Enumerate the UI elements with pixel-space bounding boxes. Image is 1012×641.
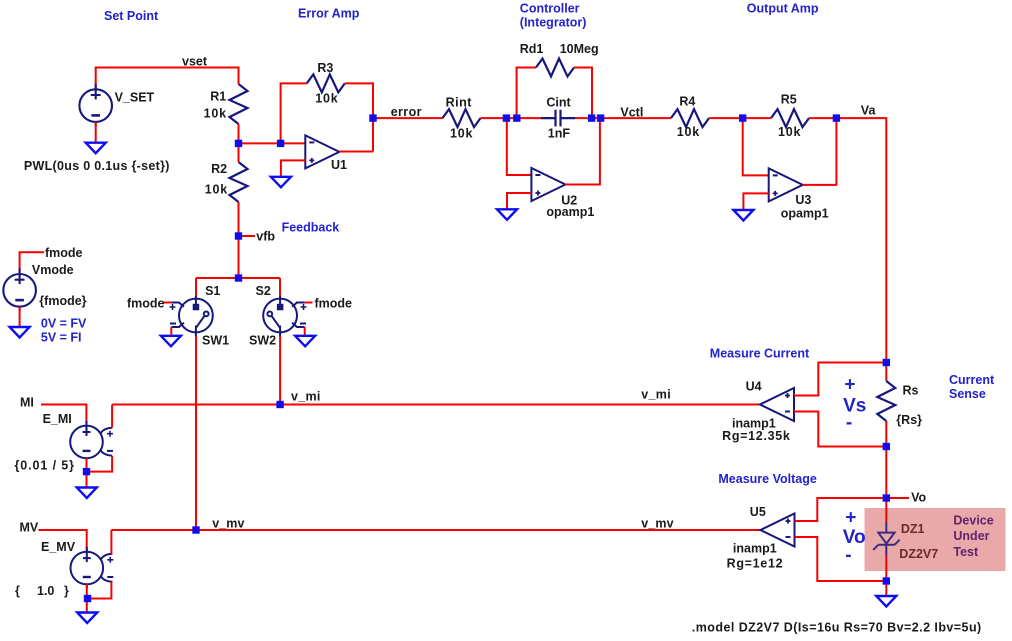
ground (U2 plus input) (497, 209, 517, 220)
wire Rd1 loop (517, 68, 592, 119)
svg-text:Rg=12.35k: Rg=12.35k (722, 429, 791, 443)
svg-text:Vmode: Vmode (32, 263, 74, 277)
wire vset net (V_SET top to R1 top) (96, 68, 239, 91)
wire U1 plus input to ground (281, 160, 305, 176)
device under test highlight box (865, 508, 1006, 571)
wire E_MI minus to node (86, 458, 88, 487)
svg-text:opamp1: opamp1 (781, 206, 829, 220)
wire U5 plus loop to Vo node (795, 498, 887, 521)
svg-text:Va: Va (861, 104, 877, 118)
wire Cint right to Vctl node (575, 117, 671, 119)
dependent source E_MI (70, 421, 113, 463)
svg-text:+: + (845, 507, 856, 528)
wire v_mi net (112, 404, 760, 406)
svg-text:1nF: 1nF (548, 127, 571, 141)
svg-text:S1: S1 (205, 284, 220, 298)
svg-text:Rd1: Rd1 (520, 42, 544, 56)
svg-text:Set Point: Set Point (104, 9, 159, 23)
svg-text:-: - (846, 413, 852, 434)
wire U4 plus loop to Rs top (794, 363, 886, 396)
svg-text:{Rs}: {Rs} (896, 413, 922, 427)
svg-text:Measure Current: Measure Current (710, 346, 810, 360)
svg-text:R5: R5 (781, 93, 797, 107)
wire S2 bottom down to v_mi node (279, 336, 281, 405)
svg-text:R3: R3 (317, 61, 333, 75)
wire Rint to integrator input node (481, 117, 542, 119)
dependent source E_MV (71, 547, 114, 589)
svg-text:MI: MI (20, 396, 34, 410)
ground (below E_MV) (77, 613, 97, 624)
node E_MI minus (83, 468, 90, 475)
wire Rs bottom to Vo node (885, 447, 887, 499)
svg-text:v_mi: v_mi (291, 389, 321, 403)
svg-text:fmode: fmode (315, 297, 353, 311)
wire E_MV control minus to node (88, 582, 112, 599)
svg-text:Device: Device (953, 513, 993, 527)
node feedback branch junction (277, 140, 284, 147)
svg-text:{0.01 / 5}: {0.01 / 5} (15, 459, 75, 473)
resistor R5 (771, 109, 809, 127)
svg-text:opamp1: opamp1 (546, 205, 594, 219)
switch S1 (SW1) (170, 296, 213, 337)
svg-text:Current: Current (949, 373, 995, 387)
svg-text:0V = FV: 0V = FV (41, 317, 87, 331)
node v_mv at S1 (192, 526, 199, 533)
wire S1 control minus to ground (170, 327, 172, 336)
svg-text:Vctl: Vctl (620, 105, 643, 119)
wire MI to E_MI plus (41, 405, 86, 426)
wire switch junction to S1 and S2 tops (196, 278, 280, 296)
wire V_SET minus to ground (95, 122, 97, 143)
svg-text:PWL(0us 0 0.1us {-set}): PWL(0us 0 0.1us {-set}) (24, 159, 170, 173)
svg-text:fmode: fmode (45, 246, 83, 260)
svg-text:U1: U1 (331, 158, 347, 172)
svg-text:10k: 10k (205, 183, 228, 197)
svg-text:Under: Under (953, 529, 989, 543)
svg-text:Feedback: Feedback (282, 220, 340, 234)
resistor R1 (230, 84, 248, 124)
ground (U3 plus input) (733, 210, 753, 221)
svg-text:Output Amp: Output Amp (747, 2, 819, 16)
svg-text:vset: vset (182, 54, 208, 68)
svg-text:v_mv: v_mv (641, 516, 673, 530)
svg-text:10Meg: 10Meg (560, 42, 599, 56)
wire R3 feedback branch (node up and across) (281, 83, 307, 143)
svg-text:v_mi: v_mi (641, 387, 671, 401)
wire R1 bottom to divider node (238, 124, 240, 143)
wire Vmode to ground (19, 307, 21, 328)
svg-text:Measure Voltage: Measure Voltage (718, 472, 816, 486)
node integrator input a (503, 114, 510, 121)
svg-text:vfb: vfb (256, 229, 275, 243)
node divider junction (235, 140, 242, 147)
wire R4 to R5 (709, 117, 771, 119)
svg-text:Sense: Sense (949, 387, 986, 401)
node Vo (883, 494, 890, 501)
svg-text:Vo: Vo (911, 490, 926, 504)
ground (S1 control) (161, 336, 181, 347)
svg-text:Test: Test (953, 545, 979, 559)
wire fmode stub to S2 control (305, 302, 313, 304)
svg-text:inamp1: inamp1 (733, 541, 777, 555)
node Rs bottom (883, 443, 890, 450)
node U3 minus junction (739, 114, 746, 121)
wire Rs leads (885, 363, 887, 447)
svg-text:MV: MV (20, 521, 39, 535)
node error (369, 114, 376, 121)
wire vfb stub to label (239, 235, 256, 237)
resistor R4 (671, 109, 709, 127)
ground (S2 control) (295, 336, 315, 347)
node vfb (235, 232, 242, 239)
svg-text:V_SET: V_SET (115, 90, 155, 104)
node v_mi at S2 (276, 401, 283, 408)
inamp U5 (761, 514, 795, 547)
svg-text:R2: R2 (211, 162, 227, 176)
svg-text:fmode: fmode (127, 297, 165, 311)
svg-text:10k: 10k (677, 125, 700, 139)
wire E_MI control plus from v_mi line (111, 405, 113, 428)
node switch junction (235, 274, 242, 281)
wire R2 top lead (238, 143, 240, 162)
node E_MV minus (84, 595, 91, 602)
wire U5 minus loop to DZ bottom (795, 537, 887, 581)
svg-text:Rint: Rint (446, 96, 473, 110)
wire divider node to U1 minus input (239, 142, 306, 144)
ground (U1 plus input) (271, 177, 291, 188)
svg-text:10k: 10k (204, 107, 227, 121)
wire vfb node down to switch junction (238, 236, 240, 278)
svg-text:DZ1: DZ1 (901, 522, 925, 536)
wire E_MV control plus from v_mv line (110, 530, 112, 554)
svg-text:SW2: SW2 (249, 333, 276, 347)
wire fmode stub (Vmode) (20, 252, 45, 274)
svg-text:-: - (845, 545, 851, 566)
resistor R3 (307, 74, 345, 92)
svg-text:Cint: Cint (546, 96, 571, 110)
ground (below E_MI) (77, 488, 97, 499)
ground (below V_SET) (86, 143, 106, 154)
wire E_MI control minus to node (87, 456, 113, 472)
svg-text:.model DZ2V7 D(Is=16u Rs=70 Bv: .model DZ2V7 D(Is=16u Rs=70 Bv=2.2 Ibv=5… (692, 621, 982, 635)
node Va junction (833, 114, 840, 121)
svg-text:+: + (844, 375, 855, 396)
svg-text:U3: U3 (795, 193, 811, 207)
resistor Rint (443, 109, 481, 127)
node Vctl a (588, 114, 595, 121)
wire Vo stub to label (886, 497, 909, 499)
inamp U4 (760, 388, 794, 421)
svg-text:E_MI: E_MI (43, 412, 72, 426)
svg-text:(Integrator): (Integrator) (520, 16, 587, 30)
wire U2 plus input to ground (507, 193, 531, 209)
svg-text:Rs: Rs (903, 383, 919, 397)
wire U2 minus input branch (507, 118, 532, 175)
wire U3 plus input to ground (743, 193, 768, 210)
node integrator input b (513, 114, 520, 121)
wire v_mv net (111, 529, 760, 531)
svg-text:Controller: Controller (520, 2, 580, 16)
svg-text:R4: R4 (679, 94, 695, 108)
wire U3 minus input branch (743, 118, 769, 175)
svg-text:R1: R1 (210, 89, 226, 103)
svg-text:U4: U4 (746, 380, 762, 394)
wire E_MV minus to node and ground (86, 584, 88, 612)
svg-text:error: error (391, 105, 422, 119)
ground (below Vmode) (10, 327, 30, 338)
wire U4 minus loop to Rs bottom (794, 412, 886, 447)
op-amp U2 (531, 168, 565, 201)
voltage source Vmode (3, 268, 36, 311)
svg-text:{fmode}: {fmode} (39, 294, 86, 308)
op-amp U1 (305, 135, 339, 168)
node Vctl b (597, 114, 604, 121)
svg-text:E_MV: E_MV (41, 540, 76, 554)
wire error node to Rint (373, 117, 443, 119)
wire R3 right to error node and down to U1 output (345, 83, 373, 151)
voltage source V_SET (79, 84, 112, 127)
svg-text:S2: S2 (256, 284, 271, 298)
op-amp U3 (769, 168, 803, 201)
wire R2 bottom to vfb node (238, 202, 240, 236)
svg-text:U5: U5 (750, 505, 766, 519)
ground (below DZ1) (876, 596, 896, 607)
wire MV to E_MV plus (39, 530, 87, 552)
zener diode DZ1 (873, 522, 900, 556)
svg-text:DZ2V7: DZ2V7 (899, 547, 938, 561)
svg-text:v_mv: v_mv (212, 516, 244, 530)
svg-text:SW1: SW1 (202, 333, 229, 347)
resistor Rd1 (536, 59, 574, 77)
wire U3 output up to Va node (803, 118, 837, 185)
resistor R2 (230, 162, 248, 202)
wire U2 output up to Vctl node (565, 118, 600, 184)
svg-text:Error Amp: Error Amp (298, 6, 360, 20)
node DZ1 bottom (883, 577, 890, 584)
svg-text:10k: 10k (315, 92, 338, 106)
svg-text:Rg=1e12: Rg=1e12 (727, 557, 784, 571)
svg-text:5V = FI: 5V = FI (41, 331, 82, 345)
wire U1 output to error node corner (339, 151, 373, 153)
wire bottom node to ground (885, 581, 887, 596)
switch S2 (SW2) (263, 296, 306, 337)
wire Vo node to DZ1 (885, 498, 887, 523)
resistor Rs (877, 381, 895, 421)
capacitor Cint (541, 110, 575, 127)
wire Va to current-sense rail (809, 118, 886, 362)
wire DZ1 to bottom node (885, 556, 887, 581)
wire S1 bottom down to v_mv node (195, 336, 197, 530)
wire S2 control minus to ground (304, 327, 306, 336)
svg-text:10k: 10k (778, 125, 801, 139)
wire fmode stub to S1 control (164, 302, 172, 304)
node Rs top (883, 359, 890, 366)
svg-text:10k: 10k (450, 127, 473, 141)
